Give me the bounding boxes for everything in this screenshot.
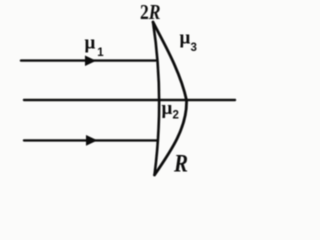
svg-text:1: 1 <box>97 47 104 59</box>
svg-text:R: R <box>173 151 188 178</box>
svg-text:μ: μ <box>180 28 191 49</box>
lens diagram figure <box>0 0 255 179</box>
svg-text:2: 2 <box>173 110 179 122</box>
lens right surface (radius R) <box>153 22 187 175</box>
wire ray 1 (top incident ray) <box>21 59 156 61</box>
lens left surface (radius 2R) <box>153 22 159 175</box>
arrowhead ray 3 <box>87 136 97 145</box>
svg-text:μ: μ <box>85 33 96 54</box>
wire ray 3 (bottom incident ray) <box>24 139 158 141</box>
svg-text:μ: μ <box>162 98 173 119</box>
wire ray 2 (optical axis) <box>24 99 235 101</box>
svg-text:3: 3 <box>191 42 197 54</box>
svg-text:2R: 2R <box>140 0 161 24</box>
arrowhead ray 1 <box>86 56 96 65</box>
